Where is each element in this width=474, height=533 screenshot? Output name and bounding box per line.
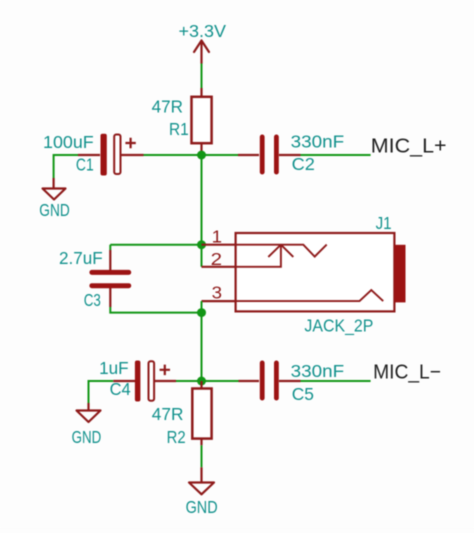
J1 sleeve contact (pin 3): [236, 290, 383, 301]
value 2.7uF (C3): [59, 248, 103, 268]
ground GND (C4): [77, 403, 101, 422]
wire C3 bottom to pin3 node: [110, 307, 201, 313]
junction C (pin3/C3 node): [197, 308, 206, 317]
wire R2 to GND: [201, 445, 203, 467]
svg-text:GND: GND: [39, 200, 69, 220]
ref C3: [84, 290, 101, 310]
ground label GND (C1): [39, 200, 69, 220]
capacitor C5: [239, 361, 301, 401]
junction A (R1/C1/C2 node): [197, 151, 206, 160]
value 47R (R1): [152, 97, 183, 117]
power label +3.3V: [179, 21, 227, 41]
pin 1 (J1): [202, 244, 236, 246]
J1 wiper arrow (pin 2): [236, 245, 293, 267]
svg-text:C3: C3: [84, 290, 101, 310]
wire bottom node to C5: [202, 380, 239, 382]
junction B (pin1 node): [197, 240, 206, 249]
svg-text:R1: R1: [169, 119, 189, 139]
svg-text:C4: C4: [110, 379, 131, 399]
wire +3.3V to R1: [201, 64, 203, 89]
wire C4 corner segment: [89, 381, 114, 403]
pin 2 (J1): [202, 266, 236, 268]
wire pin1 node left to C3: [110, 244, 201, 246]
junction D (bottom node): [197, 377, 206, 386]
svg-text:GND: GND: [72, 427, 102, 447]
svg-text:MIC_L−: MIC_L−: [373, 361, 441, 384]
pin number 1: [212, 227, 222, 247]
value 1uF (C4): [99, 358, 129, 378]
ref C1: [76, 155, 94, 175]
svg-text:C1: C1: [76, 155, 94, 175]
wire C1 to GND: [53, 154, 55, 178]
wire junction A down to jack pin1 node: [201, 155, 203, 245]
capacitor C4 (polarized): [113, 361, 176, 402]
ground GND (C1): [43, 178, 66, 200]
wire pin1 node down to pin2: [201, 245, 203, 267]
svg-text:C2: C2: [292, 154, 315, 174]
pin number 3: [212, 283, 222, 303]
pin number 2: [211, 249, 222, 269]
wire pin3 to pin3 node: [201, 301, 203, 313]
svg-text:J1: J1: [376, 213, 392, 233]
ref C4: [110, 379, 131, 399]
svg-text:+3.3V: +3.3V: [179, 21, 227, 41]
value 330nF (C5): [291, 361, 345, 381]
svg-text:JACK_2P: JACK_2P: [304, 316, 373, 337]
svg-text:R2: R2: [167, 427, 186, 447]
wire pin3 node down to bottom node: [201, 313, 203, 381]
J1 tip contact (pin 1): [236, 245, 327, 257]
svg-text:330nF: 330nF: [291, 132, 345, 152]
wire top-left horizontal (C1 to junction): [54, 154, 238, 156]
pin 3 (J1): [202, 300, 236, 302]
connector J1 body: [236, 233, 406, 311]
svg-text:3: 3: [212, 283, 222, 303]
power symbol +3.3V: [194, 41, 209, 64]
wire junction to C2: [238, 154, 258, 156]
svg-text:C5: C5: [292, 384, 314, 404]
wire C4 to bottom node: [176, 380, 202, 382]
ref C5: [292, 384, 314, 404]
svg-text:330nF: 330nF: [291, 361, 345, 381]
wire C2 to MIC_L+: [300, 154, 371, 156]
ref R1: [169, 119, 189, 139]
net label MIC_L-: [373, 361, 441, 384]
svg-text:1: 1: [212, 227, 222, 247]
resistor R1: [192, 88, 212, 155]
ref C2: [292, 154, 315, 174]
ground label GND (C4): [72, 427, 102, 447]
svg-text:2.7uF: 2.7uF: [59, 248, 103, 268]
svg-text:1uF: 1uF: [99, 358, 129, 378]
capacitor C1 (polarized): [78, 134, 144, 176]
value JACK_2P (J1): [304, 316, 373, 337]
value 330nF (C2): [291, 132, 345, 152]
svg-text:GND: GND: [186, 497, 218, 517]
capacitor C3: [89, 250, 131, 307]
ref R2: [167, 427, 186, 447]
svg-text:100uF: 100uF: [43, 132, 94, 152]
value 100uF (C1): [43, 132, 94, 152]
svg-text:47R: 47R: [152, 97, 183, 117]
svg-text:MIC_L+: MIC_L+: [371, 135, 447, 158]
net label MIC_L+: [371, 135, 447, 158]
ref J1: [376, 213, 392, 233]
wire C5 to MIC_L-: [301, 380, 371, 382]
value 47R (R2): [152, 404, 184, 424]
resistor R2: [192, 381, 211, 445]
ground label GND (R2): [186, 497, 218, 517]
ground GND (R2): [189, 467, 214, 494]
svg-text:47R: 47R: [152, 404, 184, 424]
capacitor C2: [238, 135, 301, 175]
svg-text:2: 2: [211, 249, 222, 269]
